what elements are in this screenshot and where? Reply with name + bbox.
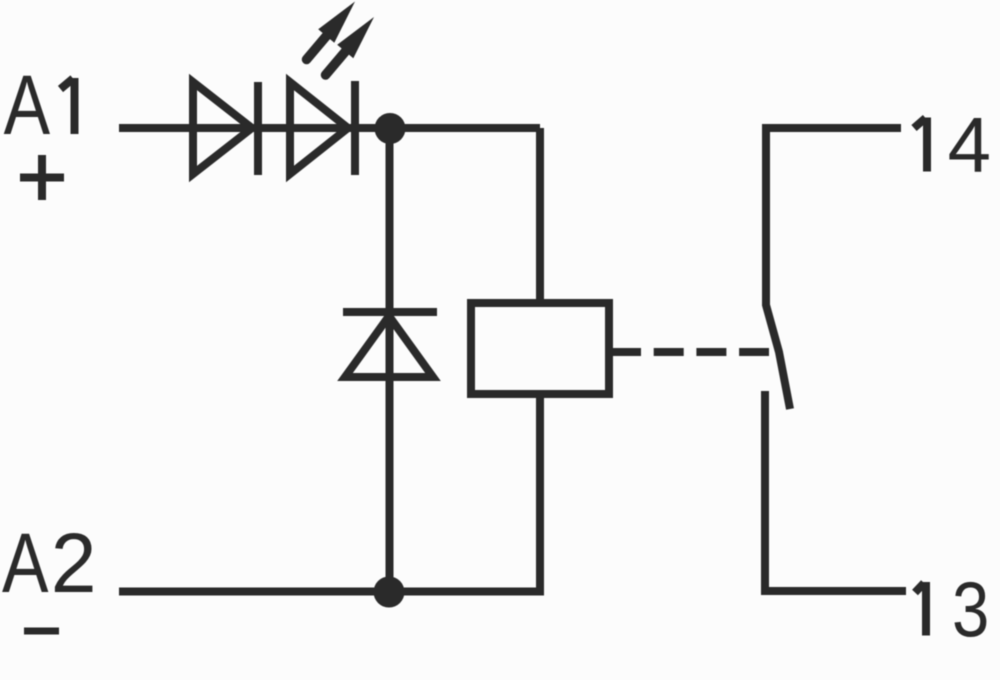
terminal label 14 digit 4 <box>948 101 991 189</box>
junction node 1 <box>375 113 406 144</box>
relay coil K1 <box>471 303 609 394</box>
svg-text:A: A <box>4 59 51 153</box>
wire node 1 down to node 2 <box>386 128 394 592</box>
freewheeling diode D3 <box>343 312 437 377</box>
svg-text:2: 2 <box>51 516 97 610</box>
wire node 1 to coil top <box>536 128 544 303</box>
svg-text:A: A <box>2 517 49 611</box>
plus polarity mark <box>20 155 64 200</box>
LED emission arrow 2 <box>326 17 375 75</box>
terminal label 13 digit 3 <box>952 566 989 653</box>
terminal label 13 digit 1 <box>915 582 926 636</box>
minus polarity mark <box>24 628 59 635</box>
mechanical linkage (dashed) <box>611 348 769 356</box>
contact blade NO <box>766 305 790 409</box>
terminal label A1 digit 1 <box>61 78 75 134</box>
diode D1 (reverse polarity protection) <box>193 82 258 175</box>
wire terminal 13 <box>765 391 906 591</box>
wire terminal 14 <box>766 128 901 306</box>
terminal label A1 <box>4 59 51 153</box>
svg-text:3: 3 <box>952 566 989 653</box>
wire coil bottom to node 2 <box>119 394 540 592</box>
LED D2 <box>290 81 355 175</box>
LED emission arrow 1 <box>307 2 356 60</box>
junction node 2 <box>374 577 405 608</box>
terminal label 14 digit 1 <box>914 118 927 172</box>
svg-text:4: 4 <box>948 101 991 189</box>
terminal label A2 <box>2 516 97 610</box>
wire A1 to node 1 <box>119 124 540 132</box>
